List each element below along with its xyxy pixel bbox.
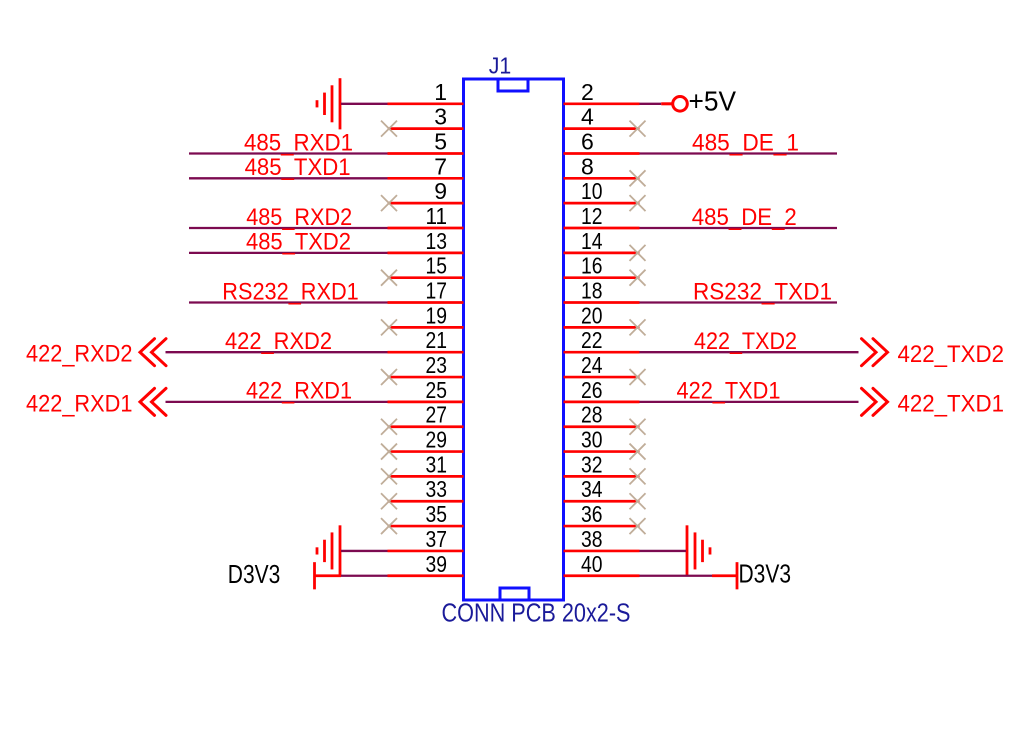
svg-text:422_TXD1: 422_TXD1	[677, 378, 781, 405]
svg-text:40: 40	[581, 551, 603, 577]
no-connect X pin 3	[381, 121, 397, 137]
no-connect X pin 36	[630, 518, 646, 534]
svg-text:J1: J1	[489, 53, 512, 79]
pin 28 lead	[564, 425, 640, 428]
no-connect X pin 14	[630, 245, 646, 261]
svg-text:29: 29	[426, 427, 448, 453]
wire net RS232_RXD1 (pin 17)	[189, 301, 388, 303]
no-connect X pin 31	[381, 468, 397, 484]
svg-text:10: 10	[581, 178, 603, 204]
pin 39 lead	[388, 574, 464, 577]
svg-text:485_TXD2: 485_TXD2	[246, 229, 351, 256]
power symbol D3V3 (pin 39)	[315, 562, 342, 589]
svg-text:11: 11	[426, 203, 448, 229]
off-page connector 422_RXD1 (pin 25)	[140, 388, 166, 415]
pin 1 lead	[388, 102, 464, 105]
svg-text:27: 27	[426, 402, 448, 428]
power symbol +5V (pin 2)	[661, 97, 687, 112]
pin 19 lead	[388, 326, 464, 329]
svg-text:15: 15	[426, 253, 448, 279]
pin 11 lead	[388, 227, 464, 230]
wire pin 39 to D3V3	[341, 575, 388, 577]
ground symbol (pin 1)	[317, 78, 340, 129]
svg-text:33: 33	[426, 476, 448, 502]
pin 7 lead	[388, 177, 464, 180]
no-connect X pin 24	[630, 369, 646, 385]
wire net 485_RXD2 (pin 11)	[189, 227, 388, 229]
pin 35 lead	[388, 525, 464, 528]
pin 9 lead	[388, 202, 464, 205]
svg-text:422_TXD1: 422_TXD1	[898, 391, 1005, 418]
svg-text:CONN PCB 20x2-S: CONN PCB 20x2-S	[442, 600, 631, 628]
pin 27 lead	[388, 425, 464, 428]
svg-text:17: 17	[426, 278, 448, 304]
no-connect X pin 35	[381, 518, 397, 534]
svg-text:37: 37	[426, 526, 448, 552]
svg-text:32: 32	[581, 451, 603, 477]
pin 30 lead	[564, 450, 640, 453]
svg-text:7: 7	[434, 153, 447, 179]
svg-text:1: 1	[434, 79, 447, 105]
power symbol D3V3 (pin 40)	[712, 562, 737, 589]
pin 5 lead	[388, 152, 464, 155]
no-connect X pin 34	[630, 493, 646, 509]
svg-text:18: 18	[581, 278, 603, 304]
no-connect X pin 4	[630, 121, 646, 137]
wire net 485_DE_2 (pin 12)	[640, 227, 838, 229]
wire pin 38 to ground	[640, 550, 687, 552]
no-connect X pin 28	[630, 419, 646, 435]
svg-text:23: 23	[426, 352, 448, 378]
off-page connector 422_TXD2 (pin 22)	[862, 339, 888, 366]
svg-text:31: 31	[426, 451, 448, 477]
wire pin 2 to +5V	[640, 103, 662, 105]
J1 bottom key notch	[500, 588, 529, 600]
no-connect X pin 20	[630, 319, 646, 335]
off-page connector 422_TXD1 (pin 26)	[862, 388, 888, 415]
svg-text:38: 38	[581, 526, 603, 552]
wire pin 40 to D3V3	[640, 575, 713, 577]
svg-text:35: 35	[426, 501, 448, 527]
svg-text:6: 6	[581, 128, 594, 154]
pin 3 lead	[388, 127, 464, 130]
wire net 422_TXD2 (pin 22)	[640, 351, 859, 353]
pin 26 lead	[564, 401, 640, 404]
no-connect X pin 16	[630, 270, 646, 286]
svg-text:19: 19	[426, 302, 448, 328]
svg-text:24: 24	[581, 352, 603, 378]
pin 40 lead	[564, 574, 640, 577]
no-connect X pin 8	[630, 170, 646, 186]
J1 top key notch	[498, 79, 528, 91]
pin 14 lead	[564, 251, 640, 254]
svg-text:RS232_RXD1: RS232_RXD1	[222, 278, 359, 305]
svg-text:485_TXD1: 485_TXD1	[245, 154, 351, 181]
svg-text:422_RXD2: 422_RXD2	[225, 328, 332, 355]
no-connect X pin 9	[381, 195, 397, 211]
pin 16 lead	[564, 276, 640, 279]
svg-text:5: 5	[434, 128, 447, 154]
pin 15 lead	[388, 276, 464, 279]
pin 33 lead	[388, 500, 464, 503]
wire net 485_DE_1 (pin 6)	[640, 152, 838, 154]
pin 32 lead	[564, 475, 640, 478]
svg-text:30: 30	[581, 427, 603, 453]
pin 34 lead	[564, 500, 640, 503]
svg-text:422_TXD2: 422_TXD2	[694, 328, 797, 355]
pin 22 lead	[564, 351, 640, 354]
no-connect X pin 32	[630, 468, 646, 484]
pin 29 lead	[388, 450, 464, 453]
svg-text:422_RXD1: 422_RXD1	[246, 378, 352, 405]
no-connect X pin 15	[381, 270, 397, 286]
pin 4 lead	[564, 127, 640, 130]
svg-text:RS232_TXD1: RS232_TXD1	[693, 278, 832, 305]
svg-text:422_RXD2: 422_RXD2	[26, 341, 133, 368]
wire net 422_RXD2 (pin 21)	[166, 351, 388, 353]
svg-text:3: 3	[434, 104, 447, 130]
svg-text:34: 34	[581, 476, 603, 502]
no-connect X pin 19	[381, 319, 397, 335]
pin 10 lead	[564, 202, 640, 205]
wire pin 37 to ground	[341, 550, 388, 552]
svg-text:422_TXD2: 422_TXD2	[898, 341, 1005, 368]
wire net 485_RXD1 (pin 5)	[189, 152, 388, 154]
pin 38 lead	[564, 550, 640, 553]
svg-text:13: 13	[426, 228, 448, 254]
pin 8 lead	[564, 177, 640, 180]
svg-text:9: 9	[434, 178, 447, 204]
pin 36 lead	[564, 525, 640, 528]
pin 37 lead	[388, 550, 464, 553]
wire net 485_TXD2 (pin 13)	[189, 252, 388, 254]
off-page connector 422_RXD2 (pin 21)	[140, 339, 166, 366]
svg-text:26: 26	[581, 377, 603, 403]
svg-text:21: 21	[426, 327, 448, 353]
svg-text:16: 16	[581, 253, 603, 279]
svg-text:25: 25	[426, 377, 448, 403]
pin 6 lead	[564, 152, 640, 155]
svg-text:12: 12	[581, 203, 603, 229]
svg-text:485_DE_1: 485_DE_1	[692, 129, 799, 156]
svg-text:8: 8	[581, 153, 594, 179]
no-connect X pin 27	[381, 419, 397, 435]
pin 24 lead	[564, 376, 640, 379]
pin 21 lead	[388, 351, 464, 354]
no-connect X pin 10	[630, 195, 646, 211]
pin 31 lead	[388, 475, 464, 478]
svg-text:2: 2	[581, 79, 594, 105]
wire pin 1 to ground	[341, 103, 388, 105]
svg-text:422_RXD1: 422_RXD1	[26, 390, 133, 417]
svg-text:22: 22	[581, 327, 603, 353]
pin 18 lead	[564, 301, 640, 304]
svg-text:485_RXD1: 485_RXD1	[244, 129, 353, 156]
svg-text:485_DE_2: 485_DE_2	[692, 204, 797, 231]
svg-text:14: 14	[581, 228, 603, 254]
no-connect X pin 23	[381, 369, 397, 385]
wire net 422_TXD1 (pin 26)	[640, 401, 859, 403]
svg-text:D3V3: D3V3	[739, 558, 792, 588]
no-connect X pin 29	[381, 444, 397, 460]
ground symbol (pin 37)	[317, 525, 340, 576]
svg-text:36: 36	[581, 501, 603, 527]
svg-text:39: 39	[426, 551, 448, 577]
pin 25 lead	[388, 401, 464, 404]
connector J1 body	[464, 79, 564, 600]
pin 13 lead	[388, 251, 464, 254]
wire net 485_TXD1 (pin 7)	[189, 177, 388, 179]
svg-text:4: 4	[581, 104, 594, 130]
pin 12 lead	[564, 227, 640, 230]
pin 17 lead	[388, 301, 464, 304]
pin 23 lead	[388, 376, 464, 379]
no-connect X pin 30	[630, 444, 646, 460]
pin 20 lead	[564, 326, 640, 329]
svg-text:D3V3: D3V3	[228, 559, 281, 589]
wire net 422_RXD1 (pin 25)	[166, 401, 388, 403]
svg-text:28: 28	[581, 402, 603, 428]
no-connect X pin 33	[381, 493, 397, 509]
pin 2 lead	[564, 102, 640, 105]
ground symbol (pin 38)	[687, 525, 710, 576]
svg-text:485_RXD2: 485_RXD2	[246, 204, 352, 231]
svg-text:20: 20	[581, 302, 603, 328]
wire net RS232_TXD1 (pin 18)	[640, 301, 838, 303]
svg-text:+5V: +5V	[689, 86, 737, 117]
